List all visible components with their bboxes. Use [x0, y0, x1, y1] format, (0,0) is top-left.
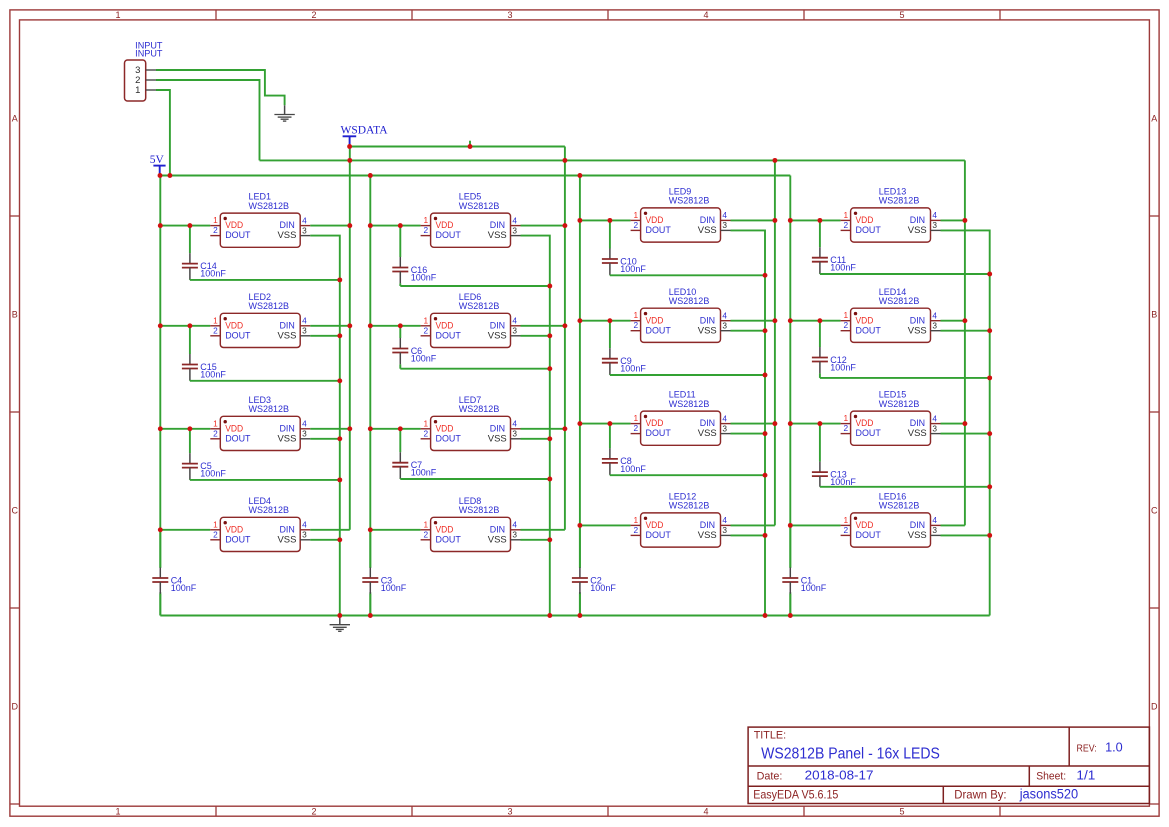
LED11 pin 1 VDD	[631, 423, 641, 425]
LED4 pin 4 DIN	[300, 529, 310, 531]
LED3 pin 4 DIN	[300, 428, 310, 430]
svg-text:2: 2	[213, 225, 218, 235]
LED1 pin 3 VSS	[300, 235, 310, 237]
junction at 774.9,220.4	[772, 218, 777, 223]
svg-text:VDD: VDD	[856, 520, 874, 530]
junction at 339.8,539.8	[337, 537, 342, 542]
LED16 pin 4 DIN	[931, 524, 941, 526]
svg-text:D: D	[11, 701, 18, 711]
wire VDD row 4 column 4	[790, 524, 840, 526]
svg-text:WS2812B: WS2812B	[459, 505, 500, 515]
junction at 339.8,279.9	[337, 277, 342, 282]
LED5 pin 4 DIN	[511, 225, 521, 227]
svg-text:WS2812B: WS2812B	[249, 505, 290, 515]
junction at 549.8,368.7	[547, 366, 552, 371]
LED1 pin 1 VDD	[210, 225, 220, 227]
wire DIN row 1 column 4	[941, 219, 965, 221]
wire VSS row 2 column 4	[941, 330, 990, 332]
LED LED13 (WS2812B)	[841, 187, 941, 243]
svg-text:2: 2	[423, 529, 428, 539]
svg-text:1: 1	[633, 310, 638, 320]
junction at 989.7,274.0	[987, 272, 992, 277]
capacitor C1	[782, 525, 826, 615]
LED6 pin 2 DOUT	[421, 335, 431, 337]
column 2 GND vertical with row1 VSS wire	[521, 236, 550, 616]
svg-text:100nF: 100nF	[171, 583, 197, 593]
LED14 pin 3 VSS	[931, 330, 941, 332]
column 4 VDD rail below bottom cap	[789, 592, 791, 615]
svg-text:2: 2	[213, 428, 218, 438]
svg-text:VDD: VDD	[225, 320, 243, 330]
junction at 400.3,325.8	[398, 323, 403, 328]
svg-text:VSS: VSS	[278, 534, 297, 544]
wire DIN row 4 column 4	[941, 524, 965, 526]
svg-text:WS2812B: WS2812B	[879, 501, 920, 511]
LED15 pin 1 VDD	[841, 423, 851, 425]
wire DIN row 4 column 1	[310, 529, 350, 531]
wire VDD row 1 column 4	[790, 219, 840, 221]
svg-text:A: A	[1151, 113, 1157, 123]
junction at 189.9,428.8	[187, 426, 192, 431]
svg-text:4: 4	[932, 413, 937, 423]
svg-text:4: 4	[302, 316, 307, 326]
column 1 VDD rail	[159, 176, 161, 569]
LED12 pin 2 DOUT	[631, 534, 641, 536]
wire DIN row 3 column 3	[731, 423, 775, 425]
svg-text:3: 3	[722, 423, 727, 433]
connector INPUT body	[125, 60, 146, 101]
junction at 989.7,433.6	[987, 431, 992, 436]
LED LED6 (WS2812B)	[421, 292, 521, 348]
LED1 pin 4 DIN	[300, 225, 310, 227]
svg-text:VSS: VSS	[278, 433, 297, 443]
svg-text:2: 2	[633, 423, 638, 433]
wire VSS row 4 column 1	[310, 539, 340, 541]
junction at 549.8,539.8	[547, 537, 552, 542]
wire DIN row 1 column 2	[521, 225, 565, 227]
net flag 5V	[150, 154, 166, 176]
LED16 pin 2 DOUT	[841, 534, 851, 536]
wire VDD row 4 column 1	[160, 529, 210, 531]
svg-text:VDD: VDD	[646, 315, 664, 325]
LED1 pin 2 DOUT	[210, 235, 220, 237]
svg-text:4: 4	[932, 210, 937, 220]
svg-text:4: 4	[722, 210, 727, 220]
wire DIN row 3 column 1	[310, 428, 350, 430]
LED LED1 (WS2812B)	[210, 192, 310, 248]
svg-text:2: 2	[633, 320, 638, 330]
junction at 339.8,615.5	[337, 613, 342, 618]
wire VDD row 4 column 2	[370, 529, 420, 531]
LED5 pin 1 VDD	[421, 225, 431, 227]
wire VDD row 2 column 1	[160, 325, 210, 327]
column 4 VDD rail	[789, 176, 791, 569]
svg-text:1.0: 1.0	[1105, 740, 1123, 755]
svg-text:WS2812B: WS2812B	[669, 399, 710, 409]
capacitor C3	[362, 530, 406, 616]
junction at 370.3,175.5	[368, 173, 373, 178]
svg-text:INPUT: INPUT	[135, 48, 163, 58]
LED9 pin 3 VSS	[721, 229, 731, 231]
junction at 765.0,433.6	[763, 431, 768, 436]
svg-text:DIN: DIN	[910, 520, 925, 530]
junction at 765.0,330.7	[763, 328, 768, 333]
svg-text:100nF: 100nF	[830, 477, 856, 487]
svg-text:1: 1	[843, 413, 848, 423]
title block frame	[748, 727, 1149, 803]
capacitor C5	[182, 429, 226, 480]
LED LED8 (WS2812B)	[421, 496, 521, 552]
junction at 549.8,335.8	[547, 333, 552, 338]
wire VDD row 1 column 3	[580, 219, 631, 221]
wire VDD row 1 column 2	[370, 225, 420, 227]
LED11 pin 2 DOUT	[631, 433, 641, 435]
svg-text:100nF: 100nF	[200, 269, 226, 279]
wire DIN row 4 column 3	[731, 524, 775, 526]
wire VSS row 3 column 3	[731, 433, 766, 435]
wire VDD row 3 column 1	[160, 428, 210, 430]
LED8 pin 3 VSS	[511, 539, 521, 541]
LED LED11 (WS2812B)	[631, 390, 731, 446]
wire capacitor C16 bottom to GND	[400, 285, 550, 287]
junction at 609.9,423.6	[607, 421, 612, 426]
LED11 pin 3 VSS	[721, 433, 731, 435]
LED6 pin 4 DIN	[511, 325, 521, 327]
svg-text:WSDATA: WSDATA	[341, 125, 389, 137]
wire VDD row 2 column 3	[580, 320, 631, 322]
svg-text:100nF: 100nF	[381, 583, 407, 593]
svg-text:3: 3	[722, 220, 727, 230]
junction at 160.3,325.8	[158, 323, 163, 328]
svg-text:DIN: DIN	[280, 220, 295, 230]
svg-text:4: 4	[932, 311, 937, 321]
LED13 pin 2 DOUT	[841, 229, 851, 231]
svg-text:VDD: VDD	[225, 220, 243, 230]
svg-text:3: 3	[932, 525, 937, 535]
junction at 989.7,377.9	[987, 375, 992, 380]
svg-text:DOUT: DOUT	[856, 325, 882, 335]
svg-text:3: 3	[512, 326, 517, 336]
junction at 579.9,525.4	[577, 523, 582, 528]
wire VDD row 1 column 1	[160, 225, 210, 227]
svg-text:VSS: VSS	[698, 530, 717, 540]
junction at 549.8,479.0	[547, 477, 552, 482]
LED5 pin 2 DOUT	[421, 235, 431, 237]
svg-text:1: 1	[115, 807, 120, 817]
junction at 349.8,160.4	[347, 158, 352, 163]
LED14 pin 2 DOUT	[841, 330, 851, 332]
svg-text:DOUT: DOUT	[225, 534, 251, 544]
svg-text:VDD: VDD	[646, 215, 664, 225]
svg-text:WS2812B: WS2812B	[879, 196, 920, 206]
svg-text:WS2812B: WS2812B	[669, 501, 710, 511]
svg-text:4: 4	[302, 520, 307, 530]
svg-text:VSS: VSS	[698, 325, 717, 335]
svg-text:3: 3	[722, 321, 727, 331]
svg-text:100nF: 100nF	[801, 583, 827, 593]
svg-text:VDD: VDD	[646, 520, 664, 530]
svg-text:2: 2	[213, 325, 218, 335]
capacitor C8	[602, 424, 646, 476]
column 1 GND vertical with row1 VSS wire	[310, 236, 340, 616]
svg-text:WS2812B: WS2812B	[879, 296, 920, 306]
svg-text:3: 3	[932, 220, 937, 230]
wire capacitor C10 bottom to GND	[610, 274, 765, 276]
svg-text:VDD: VDD	[225, 524, 243, 534]
junction at 339.8,479.9	[337, 477, 342, 482]
junction at 765.0,615.5	[763, 613, 768, 618]
svg-text:WS2812B: WS2812B	[879, 399, 920, 409]
column 3 GND vertical with row1 VSS wire	[731, 230, 766, 615]
wire VSS row 2 column 2	[521, 335, 550, 337]
wire: INPUT pin2 down to WSDATA bus	[156, 80, 260, 160]
wire capacitor C5 bottom to GND	[190, 479, 340, 481]
LED3 pin 3 VSS	[300, 438, 310, 440]
capacitor C14	[182, 226, 226, 280]
LED9 pin 2 DOUT	[631, 229, 641, 231]
svg-text:DOUT: DOUT	[225, 230, 251, 240]
junction at 370.3,225.6	[368, 223, 373, 228]
svg-text:C: C	[11, 505, 18, 515]
junction at 964.9,220.4	[962, 218, 967, 223]
capacitor C10	[602, 220, 646, 275]
wire: stub above WSDATA segment	[469, 141, 471, 147]
column 3 VDD rail below bottom cap	[579, 592, 581, 615]
svg-text:VSS: VSS	[908, 325, 927, 335]
LED9 pin 4 DIN	[721, 219, 731, 221]
wire VDD row 4 column 3	[580, 524, 631, 526]
junction at 609.9,220.4	[607, 218, 612, 223]
capacitor C16	[392, 226, 436, 286]
junction at 790.3,220.4	[788, 218, 793, 223]
wire VSS row 3 column 1	[310, 438, 340, 440]
svg-text:4: 4	[703, 10, 708, 20]
column 3 VDD rail	[579, 176, 581, 569]
svg-text:1: 1	[423, 315, 428, 325]
LED13 pin 1 VDD	[841, 219, 851, 221]
LED12 pin 1 VDD	[631, 524, 641, 526]
capacitor C11	[812, 220, 856, 274]
LED9 pin 1 VDD	[631, 219, 641, 221]
frame column numbers	[115, 10, 904, 816]
capacitor C15	[182, 326, 226, 381]
junction at 790.3,320.7	[788, 318, 793, 323]
wire VSS row 2 column 3	[731, 330, 766, 332]
svg-text:3: 3	[512, 429, 517, 439]
junction at 349.8,428.8	[347, 426, 352, 431]
svg-text:3: 3	[507, 10, 512, 20]
LED LED7 (WS2812B)	[421, 395, 521, 451]
junction at 549.8,615.5	[547, 613, 552, 618]
LED7 pin 3 VSS	[511, 438, 521, 440]
svg-text:3: 3	[507, 807, 512, 817]
svg-text:VSS: VSS	[698, 225, 717, 235]
junction at 989.7,486.8	[987, 484, 992, 489]
svg-text:VSS: VSS	[698, 428, 717, 438]
connector pin 3	[146, 69, 156, 71]
ground near connector	[274, 105, 294, 121]
junction at 765.0,535.4	[763, 533, 768, 538]
svg-text:4: 4	[512, 520, 517, 530]
LED14 pin 1 VDD	[841, 320, 851, 322]
junction at 370.3,325.8	[368, 323, 373, 328]
svg-text:VSS: VSS	[278, 230, 297, 240]
capacitor C2	[572, 525, 616, 615]
svg-text:3: 3	[722, 525, 727, 535]
svg-text:100nF: 100nF	[590, 583, 616, 593]
svg-text:3: 3	[302, 429, 307, 439]
LED10 pin 2 DOUT	[631, 330, 641, 332]
LED7 pin 4 DIN	[511, 428, 521, 430]
column 2 VDD rail	[369, 176, 371, 569]
wire DIN row 2 column 2	[521, 325, 565, 327]
junction at 339.8,335.8	[337, 333, 342, 338]
svg-text:100nF: 100nF	[620, 364, 646, 374]
wire VSS row 3 column 2	[521, 438, 550, 440]
svg-text:1: 1	[213, 315, 218, 325]
svg-text:4: 4	[932, 515, 937, 525]
junction at 564.9,225.6	[562, 223, 567, 228]
svg-text:DIN: DIN	[700, 520, 715, 530]
svg-text:EasyEDA V5.6.15: EasyEDA V5.6.15	[753, 787, 838, 801]
column 2 DIN vertical (WSDATA)	[564, 147, 566, 530]
LED7 pin 2 DOUT	[421, 438, 431, 440]
svg-text:100nF: 100nF	[200, 469, 226, 479]
bottom GND rail	[160, 615, 989, 617]
wire DIN row 4 column 2	[521, 529, 565, 531]
svg-text:100nF: 100nF	[411, 468, 437, 478]
svg-text:2018-08-17: 2018-08-17	[805, 768, 874, 783]
svg-text:VSS: VSS	[908, 428, 927, 438]
svg-text:100nF: 100nF	[620, 464, 646, 474]
LED4 pin 2 DOUT	[210, 539, 220, 541]
LED LED16 (WS2812B)	[841, 492, 941, 548]
svg-text:VDD: VDD	[856, 418, 874, 428]
svg-text:5V: 5V	[150, 154, 165, 166]
capacitor C12	[812, 321, 856, 378]
svg-text:3: 3	[932, 321, 937, 331]
svg-text:2: 2	[633, 525, 638, 535]
frame row letters	[11, 113, 1158, 711]
wire DIN row 2 column 1	[310, 325, 350, 327]
LED5 pin 3 VSS	[511, 235, 521, 237]
wire: 5V horizontal rail	[160, 175, 790, 177]
wire DIN row 3 column 2	[521, 428, 565, 430]
wire DIN row 1 column 3	[731, 219, 775, 221]
LED13 pin 4 DIN	[931, 219, 941, 221]
svg-text:D: D	[1151, 701, 1158, 711]
junction at 349.8,325.8	[347, 323, 352, 328]
svg-text:100nF: 100nF	[620, 264, 646, 274]
ground bottom rail	[330, 616, 350, 632]
LED LED2 (WS2812B)	[210, 292, 310, 348]
svg-text:4: 4	[512, 215, 517, 225]
LED2 pin 4 DIN	[300, 325, 310, 327]
svg-text:1: 1	[843, 515, 848, 525]
svg-text:5: 5	[899, 10, 904, 20]
svg-text:2: 2	[843, 423, 848, 433]
capacitor C6	[392, 326, 436, 369]
junction at 579.9,320.7	[577, 318, 582, 323]
junction at 774.9,160.4	[772, 158, 777, 163]
LED8 pin 2 DOUT	[421, 539, 431, 541]
junction at 579.9,423.6	[577, 421, 582, 426]
junction at 160,175.5	[158, 173, 163, 178]
svg-text:1: 1	[213, 519, 218, 529]
svg-text:VSS: VSS	[278, 330, 297, 340]
svg-text:DOUT: DOUT	[856, 428, 882, 438]
LED8 pin 4 DIN	[511, 529, 521, 531]
svg-text:DIN: DIN	[490, 320, 505, 330]
svg-text:WS2812B Panel - 16x LEDS: WS2812B Panel - 16x LEDS	[761, 745, 940, 762]
svg-text:1/1: 1/1	[1076, 768, 1095, 783]
junction at 964.9,423.6	[962, 421, 967, 426]
junction at 370.3,529.8	[368, 527, 373, 532]
svg-text:3: 3	[302, 530, 307, 540]
svg-text:1: 1	[213, 418, 218, 428]
wire capacitor C14 bottom to GND	[190, 279, 340, 281]
svg-text:2: 2	[843, 320, 848, 330]
LED3 pin 2 DOUT	[210, 438, 220, 440]
svg-text:DOUT: DOUT	[646, 530, 672, 540]
svg-text:3: 3	[512, 225, 517, 235]
junction at 370.3,428.8	[368, 426, 373, 431]
LED LED10 (WS2812B)	[631, 287, 731, 343]
svg-text:WS2812B: WS2812B	[459, 404, 500, 414]
junction at 189.9,325.8	[187, 323, 192, 328]
junction at 349.8,225.6	[347, 223, 352, 228]
svg-text:2: 2	[843, 525, 848, 535]
svg-text:3: 3	[932, 423, 937, 433]
wire DIN row 2 column 4	[941, 320, 965, 322]
svg-text:4: 4	[302, 419, 307, 429]
svg-text:VDD: VDD	[225, 423, 243, 433]
svg-text:DOUT: DOUT	[436, 230, 462, 240]
LED10 pin 1 VDD	[631, 320, 641, 322]
junction at 549.8,286.0	[547, 284, 552, 289]
svg-text:VDD: VDD	[646, 418, 664, 428]
column 4 DIN vertical (WSDATA)	[964, 160, 966, 525]
svg-text:DIN: DIN	[910, 418, 925, 428]
svg-text:VSS: VSS	[488, 433, 507, 443]
svg-text:B: B	[1151, 309, 1157, 319]
svg-text:DIN: DIN	[700, 315, 715, 325]
junction at 765.0,275.3	[763, 273, 768, 278]
svg-text:1: 1	[633, 210, 638, 220]
LED4 pin 3 VSS	[300, 539, 310, 541]
LED15 pin 3 VSS	[931, 433, 941, 435]
connector pin 2	[146, 79, 156, 81]
junction at 189.9,225.6	[187, 223, 192, 228]
svg-text:VSS: VSS	[488, 230, 507, 240]
column 1 DIN vertical (WSDATA)	[349, 147, 351, 530]
junction at 765.0,375.0	[763, 373, 768, 378]
svg-text:DIN: DIN	[910, 215, 925, 225]
svg-text:VSS: VSS	[908, 530, 927, 540]
svg-text:WS2812B: WS2812B	[249, 201, 290, 211]
wire DIN row 1 column 1	[310, 225, 350, 227]
wire VSS row 3 column 4	[941, 433, 990, 435]
junction at 564.9,428.8	[562, 426, 567, 431]
wire VDD row 2 column 2	[370, 325, 420, 327]
svg-text:2: 2	[311, 10, 316, 20]
junction at 774.9,320.7	[772, 318, 777, 323]
svg-text:3: 3	[302, 225, 307, 235]
svg-text:100nF: 100nF	[200, 369, 226, 379]
junction at 160.3,225.6	[158, 223, 163, 228]
wire VDD row 3 column 4	[790, 423, 840, 425]
svg-text:VDD: VDD	[436, 320, 454, 330]
